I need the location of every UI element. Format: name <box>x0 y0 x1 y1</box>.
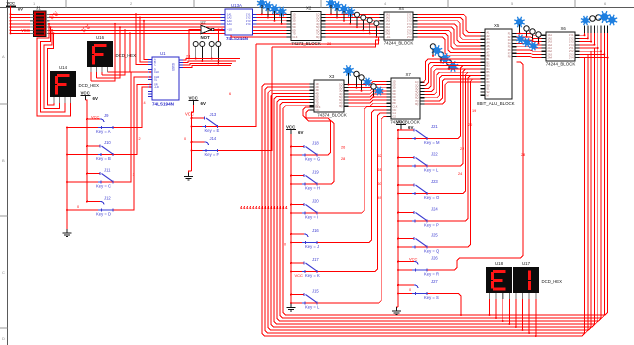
svg-text:Key = K: Key = K <box>305 273 320 278</box>
svg-text:U17: U17 <box>522 261 531 266</box>
svg-text:S1S0: S1S0 <box>171 63 175 71</box>
switch J21 Key = M <box>397 124 440 145</box>
switch J26 Key = R <box>397 255 439 276</box>
svg-text:23: 23 <box>186 55 190 59</box>
svg-text:8Q: 8Q <box>316 36 319 39</box>
wire bus X3 to X7 <box>349 82 387 107</box>
svg-text:U1: U1 <box>160 51 166 56</box>
switch J11 Key = C <box>86 167 113 188</box>
svg-text:Key = G: Key = G <box>305 156 320 161</box>
svg-text:J22: J22 <box>431 151 438 156</box>
svg-text:6V: 6V <box>93 96 98 101</box>
wire switch G-L rows to X3/X7 <box>291 107 387 304</box>
svg-text:J19: J19 <box>312 169 319 174</box>
svg-text:Key = J: Key = J <box>305 244 319 249</box>
wire switch E-F rows <box>192 44 273 151</box>
svg-text:61: 61 <box>378 168 382 172</box>
svg-text:DCD_HEX: DCD_HEX <box>542 279 563 284</box>
switch J16 Key = J <box>290 228 319 249</box>
svg-text:74244_BLOCK: 74244_BLOCK <box>546 62 576 67</box>
switch J20 Key = I <box>290 198 319 219</box>
wire ground rail column M-S <box>397 129 402 308</box>
svg-text:VCC: VCC <box>7 1 16 6</box>
svg-text:VCC: VCC <box>396 119 406 124</box>
wire NOT output to U13A <box>214 29 221 31</box>
svg-text:J10: J10 <box>104 140 111 145</box>
svg-text:Key = O: Key = O <box>424 195 440 200</box>
7-segment display U16 <box>87 35 136 67</box>
svg-text:2Y4: 2Y4 <box>569 57 574 60</box>
wire switch M-S rows <box>398 62 523 316</box>
switch J25 Key = Q <box>397 232 440 253</box>
svg-text:Key = R: Key = R <box>424 271 439 276</box>
IC X2 74273_BLOCK <box>287 6 326 46</box>
7-segment display U17 <box>513 261 562 293</box>
IC X5 8BIT_ALU_BLOCK <box>477 23 517 106</box>
svg-text:J27: J27 <box>431 279 438 284</box>
svg-text:6V: 6V <box>201 101 206 106</box>
IC X4 74244_BLOCK <box>380 6 418 45</box>
svg-text:C: C <box>154 63 156 67</box>
ground switch column E-F <box>184 173 193 180</box>
lamp probes X2 inputs <box>257 0 286 24</box>
svg-text:X6: X6 <box>561 26 567 31</box>
wire VCC stem down A-D <box>86 119 88 202</box>
svg-text:7D: 7D <box>293 32 296 35</box>
ground switch column M-S <box>392 307 401 314</box>
svg-text:20: 20 <box>468 123 472 127</box>
svg-text:VCC: VCC <box>91 114 100 119</box>
wire ground rail column E-F <box>191 105 194 171</box>
svg-text:Key = E: Key = E <box>205 128 220 133</box>
svg-text:Key = L: Key = L <box>424 167 439 172</box>
svg-text:X5: X5 <box>494 23 500 28</box>
wire bus X7 to X5 <box>423 59 481 104</box>
svg-text:J17: J17 <box>312 257 319 262</box>
7-segment display U14 <box>50 65 99 97</box>
ground switch column A-D <box>63 229 72 236</box>
svg-text:6V: 6V <box>408 125 413 130</box>
display pin stubs U14 U16 <box>54 67 108 103</box>
svg-text:22: 22 <box>460 147 464 151</box>
svg-text:M: M <box>487 94 489 97</box>
IC X7 74374_BLOCK <box>387 72 425 124</box>
svg-text:8BIT_ALU_BLOCK: 8BIT_ALU_BLOCK <box>477 101 515 106</box>
svg-text:6: 6 <box>229 92 231 96</box>
svg-text:Key = Q: Key = Q <box>424 248 440 253</box>
svg-text:J23: J23 <box>431 179 438 184</box>
power VCC switch column A-D <box>81 90 98 101</box>
svg-text:2: 2 <box>139 137 141 141</box>
power VCC rail top-left <box>6 1 23 12</box>
svg-text:J12: J12 <box>104 195 111 200</box>
svg-text:Key = D: Key = D <box>96 211 111 216</box>
wire VCC stem column A-D <box>86 100 88 119</box>
svg-text:CLK: CLK <box>154 70 159 74</box>
switch J12 Key = D <box>86 195 113 216</box>
svg-text:0: 0 <box>409 288 411 292</box>
svg-text:Key = L: Key = L <box>305 304 320 309</box>
switch J14 Key = F <box>191 136 220 157</box>
svg-text:J15: J15 <box>312 288 319 293</box>
svg-text:SL: SL <box>154 78 158 82</box>
svg-text:VCC: VCC <box>189 95 199 100</box>
svg-text:CLK: CLK <box>293 36 298 39</box>
svg-text:VCC: VCC <box>286 124 296 129</box>
svg-text:Key = S: Key = S <box>424 295 439 300</box>
power VCC switch column E-F <box>189 95 206 106</box>
svg-text:U13A: U13A <box>231 3 242 8</box>
power VCC switch column M-S <box>396 119 413 130</box>
svg-text:NOT: NOT <box>201 35 211 40</box>
ground switch column G-L <box>287 304 296 311</box>
svg-text:74273_BLOCK: 74273_BLOCK <box>291 41 321 46</box>
switch J17 Key = K <box>290 257 320 278</box>
svg-text:49: 49 <box>378 196 382 200</box>
wire bus X2 to X4 <box>326 14 380 37</box>
svg-text:74LS194N: 74LS194N <box>152 102 175 107</box>
wire bus X6 outputs to bottom sweep <box>580 26 609 59</box>
wire jog to ground E-F <box>189 171 192 173</box>
IC X6 74244_BLOCK <box>542 26 580 66</box>
svg-text:~1G: ~1G <box>386 36 391 39</box>
wire NOT output down <box>218 30 220 62</box>
NOT gate U2 <box>201 20 215 41</box>
svg-text:7Q: 7Q <box>316 32 319 35</box>
svg-text:U18: U18 <box>495 261 504 266</box>
svg-text:6V: 6V <box>298 130 303 135</box>
svg-text:B: B <box>2 158 5 163</box>
wire ground rail column G-L <box>290 134 292 304</box>
svg-text:DCD_HEX: DCD_HEX <box>79 83 100 88</box>
wire ground rail column A-D <box>66 127 68 230</box>
wire bus J1 to U14 display <box>37 23 71 116</box>
svg-text:X2: X2 <box>306 6 312 11</box>
svg-text:X7: X7 <box>406 72 412 77</box>
svg-text:J25: J25 <box>431 232 438 237</box>
svg-text:Key = P: Key = P <box>424 222 439 227</box>
svg-text:1: 1 <box>133 173 135 177</box>
svg-text:J14: J14 <box>210 136 217 141</box>
lamp probes X4 to X5 <box>430 44 458 72</box>
svg-text:8Q: 8Q <box>415 103 418 106</box>
lamp probes top right <box>581 11 617 33</box>
lamp probes X4 inputs <box>326 0 379 37</box>
wire U1 outputs to probes bus <box>183 58 240 68</box>
svg-text:2Y4: 2Y4 <box>407 36 412 39</box>
wire long nets to X4 lower inputs <box>256 37 380 47</box>
switch J10 Key = B <box>86 140 113 161</box>
svg-text:62: 62 <box>378 154 382 158</box>
svg-text:2A3: 2A3 <box>386 32 391 35</box>
svg-text:U14: U14 <box>59 65 68 70</box>
wire NOT input <box>189 30 201 59</box>
svg-text:8Q: 8Q <box>339 105 342 108</box>
switch J13 Key = E <box>191 112 220 133</box>
svg-text:J26: J26 <box>431 255 438 260</box>
switch J18 Key = G <box>290 140 320 161</box>
svg-text:Key = H: Key = H <box>305 185 320 190</box>
wire bus X5 to X6 <box>517 34 542 58</box>
svg-text:DCD_HEX: DCD_HEX <box>116 53 137 58</box>
svg-text:Key = C: Key = C <box>96 183 111 188</box>
IC U1 74LS194N <box>148 51 183 107</box>
svg-text:1Y4: 1Y4 <box>246 22 251 26</box>
svg-text:J18: J18 <box>312 140 319 145</box>
svg-text:19: 19 <box>472 109 476 113</box>
net label cluster 4s <box>240 205 288 210</box>
switch J19 Key = H <box>290 169 320 190</box>
svg-text:~LD: ~LD <box>154 85 159 89</box>
switch J24 Key = P <box>397 206 439 227</box>
svg-text:0: 0 <box>77 205 79 209</box>
IC X3 74374_BLOCK <box>310 74 349 117</box>
svg-text:28: 28 <box>341 157 345 161</box>
svg-text:VCC: VCC <box>81 90 91 95</box>
svg-text:A: A <box>2 54 5 59</box>
wire bus J1 to U1 inputs <box>135 13 148 64</box>
lamp probes X5 outputs <box>514 17 541 51</box>
wire bottom sweep bus with left and right bundles <box>262 35 608 336</box>
lamp probes X3 outputs <box>343 65 383 97</box>
svg-text:U2: U2 <box>201 20 207 25</box>
wire bus J1 to U13A and X2 <box>50 14 287 33</box>
svg-text:Key = F: Key = F <box>205 152 220 157</box>
svg-text:D: D <box>2 336 5 341</box>
wire jog to ground M-S <box>397 307 399 308</box>
wire U13A enable to X2 <box>231 35 287 37</box>
svg-text:6V: 6V <box>18 7 23 12</box>
svg-text:J11: J11 <box>104 167 111 172</box>
switch J9 Key = A <box>86 113 113 134</box>
svg-text:U16: U16 <box>96 35 105 40</box>
svg-text:J24: J24 <box>431 206 438 211</box>
svg-text:74374_BLOCK: 74374_BLOCK <box>317 113 347 118</box>
svg-text:Key = A: Key = A <box>96 129 111 134</box>
svg-text:0: 0 <box>184 137 186 141</box>
svg-text:1A4: 1A4 <box>227 22 232 26</box>
svg-text:X4: X4 <box>399 6 405 11</box>
svg-text:J21: J21 <box>431 124 438 129</box>
svg-text:28: 28 <box>327 42 331 46</box>
svg-text:J20: J20 <box>312 198 319 203</box>
wire bus VCC to J1 pins <box>11 14 31 33</box>
svg-text:VCC: VCC <box>409 257 418 262</box>
wire display pins to sweep bus <box>489 293 537 337</box>
switch J15 Key = L <box>290 288 320 309</box>
svg-text:C: C <box>2 270 5 275</box>
svg-text:J13: J13 <box>210 112 217 117</box>
switch J22 Key = L <box>397 151 439 172</box>
svg-text:J1: J1 <box>36 6 41 11</box>
svg-text:Key = B: Key = B <box>96 156 111 161</box>
svg-text:OC: OC <box>316 109 320 112</box>
svg-text:VCC: VCC <box>295 273 304 278</box>
svg-text:2Y3: 2Y3 <box>407 32 412 35</box>
switch J23 Key = O <box>397 179 440 200</box>
connector J1 DIP switch pack <box>30 6 50 37</box>
svg-text:~1G: ~1G <box>227 28 232 32</box>
svg-text:J16: J16 <box>312 228 319 233</box>
svg-text:X3: X3 <box>329 74 335 79</box>
svg-text:4: 4 <box>144 101 146 105</box>
IC U13A 74LS244N <box>221 3 257 41</box>
svg-text:0: 0 <box>284 243 286 247</box>
wire VCC rail vertical <box>10 6 12 33</box>
svg-text:Key = I: Key = I <box>305 214 318 219</box>
wire switch A-D rows <box>67 71 151 210</box>
svg-text:60: 60 <box>378 182 382 186</box>
svg-text:J9: J9 <box>104 113 109 118</box>
wire bus X4 to X5 <box>418 14 481 55</box>
svg-text:74244_BLOCK: 74244_BLOCK <box>384 41 414 46</box>
7-segment display U18 <box>486 261 512 293</box>
svg-text:Key = M: Key = M <box>424 140 440 145</box>
svg-text:2A4: 2A4 <box>548 57 553 60</box>
probe indicators after U1 <box>193 42 221 64</box>
svg-text:28: 28 <box>521 153 525 157</box>
svg-text:26: 26 <box>341 146 345 150</box>
switch J27 Key = S <box>397 279 439 300</box>
wire bus J1 to U16 display <box>91 23 131 81</box>
svg-text:24: 24 <box>458 172 462 176</box>
power VCC switch column G-L <box>286 124 303 135</box>
